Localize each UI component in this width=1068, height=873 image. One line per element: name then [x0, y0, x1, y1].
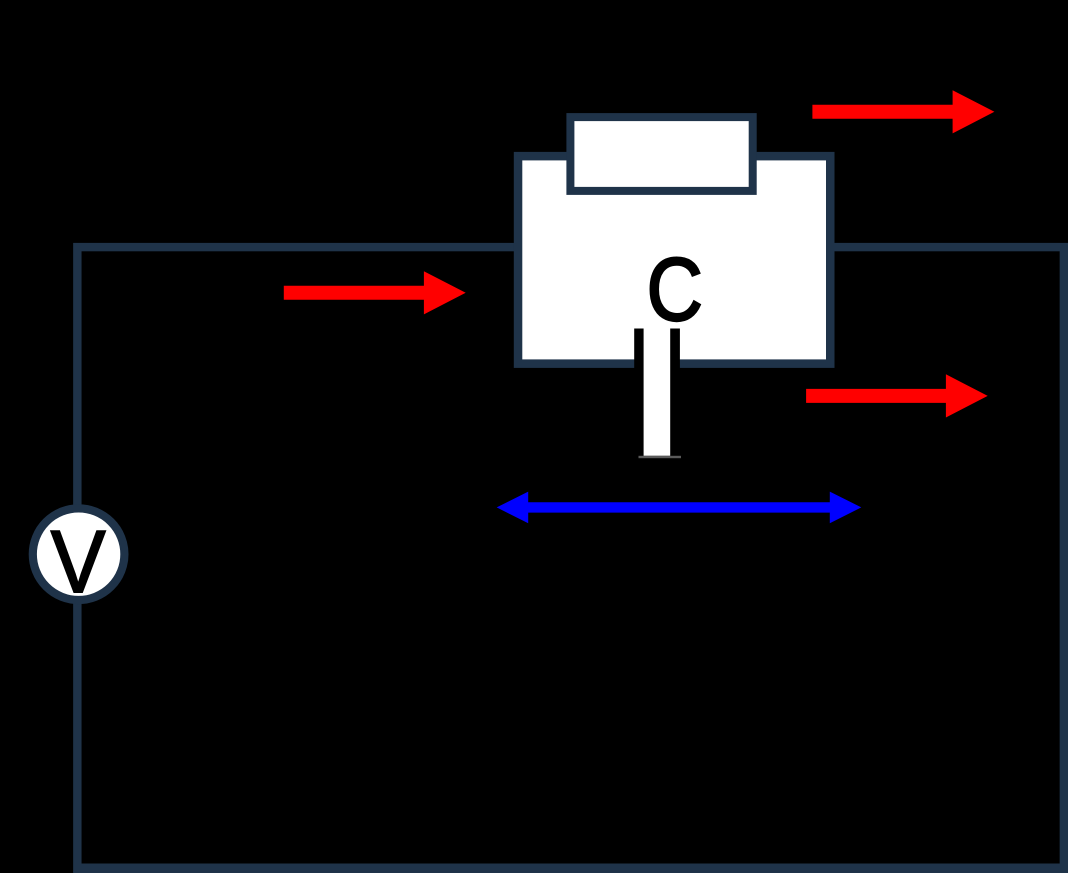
top electrode plate [570, 117, 752, 191]
blue double arrow [497, 492, 862, 524]
capacitor C body [518, 156, 830, 364]
finger bottom gray edge [639, 456, 682, 458]
svg-text:V: V [51, 513, 106, 611]
red arrow middle left [284, 271, 466, 314]
movable finger white core [644, 329, 671, 456]
svg-text:C: C [647, 239, 703, 339]
wire circuit loop [77, 247, 1064, 868]
voltage source V circle [33, 508, 125, 600]
wire bottom edge fill [73, 871, 1068, 873]
red arrow right [806, 374, 988, 417]
red arrow top right [812, 90, 994, 133]
movable finger black border [634, 329, 680, 457]
